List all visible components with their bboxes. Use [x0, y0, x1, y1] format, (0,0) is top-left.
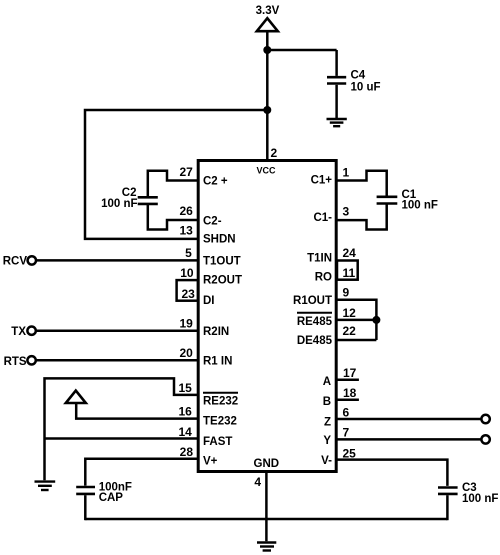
svg-text:VCC: VCC [256, 166, 276, 176]
svg-text:C4: C4 [351, 70, 366, 82]
svg-text:23: 23 [182, 287, 196, 301]
logic-high triangle at TE232 [66, 391, 86, 403]
svg-text:RTS: RTS [4, 356, 27, 368]
terminal Z circle [481, 415, 489, 423]
svg-text:C1+: C1+ [311, 174, 333, 186]
svg-text:GND: GND [254, 458, 280, 470]
pin 15 wire [45, 378, 199, 480]
capacitor C2 [138, 197, 158, 204]
svg-text:T1OUT: T1OUT [203, 256, 241, 268]
svg-text:22: 22 [343, 324, 357, 338]
svg-text:24: 24 [343, 246, 357, 260]
svg-text:15: 15 [178, 381, 192, 395]
pin 11 box [337, 261, 358, 280]
capacitor C1 [377, 197, 398, 204]
pin 6 wire Z [337, 418, 481, 421]
wire SHDN branch [85, 110, 267, 239]
IC U1 body [198, 161, 336, 472]
svg-text:13: 13 [179, 224, 193, 238]
svg-text:Z: Z [324, 417, 331, 429]
pin 19 wire [36, 329, 198, 332]
pin 27 wire [148, 171, 198, 196]
svg-text:RE232: RE232 [203, 395, 238, 407]
svg-text:1: 1 [343, 165, 350, 179]
svg-text:CAP: CAP [99, 492, 124, 504]
pin 1 wire [337, 171, 387, 196]
svg-text:100 nF: 100 nF [402, 200, 438, 212]
svg-text:14: 14 [178, 425, 192, 439]
pin 18 stub [337, 399, 359, 402]
capacitor C3 [438, 488, 458, 521]
svg-text:10: 10 [180, 266, 194, 280]
pin 20 wire [36, 359, 198, 362]
svg-text:9: 9 [343, 285, 350, 299]
pin 7 wire Y [337, 438, 481, 441]
svg-text:R2OUT: R2OUT [203, 275, 242, 287]
svg-text:3: 3 [343, 204, 350, 218]
svg-text:RO: RO [315, 272, 332, 284]
pin 9 wire [337, 300, 376, 340]
junction dot at 3.3V/C4 [263, 46, 271, 54]
svg-text:10 uF: 10 uF [351, 82, 381, 94]
pin 23 box [177, 280, 198, 301]
svg-text:A: A [323, 376, 331, 388]
capacitor CAP 100nF [76, 487, 95, 520]
pin 17 stub [337, 379, 359, 382]
pin name RE232 overline [203, 392, 238, 394]
pin 25 wire [337, 460, 447, 486]
junction dot at 3.3V/SHDN branch [263, 106, 271, 114]
svg-text:6: 6 [343, 405, 350, 419]
pin 28 wire [85, 459, 198, 486]
svg-text:27: 27 [179, 165, 193, 179]
wire 3.3V to pin 2 [266, 31, 269, 160]
svg-text:DI: DI [203, 295, 215, 307]
svg-text:16: 16 [178, 405, 192, 419]
power symbol 3.3V triangle [257, 18, 278, 31]
svg-text:T1IN: T1IN [307, 253, 332, 265]
svg-text:2: 2 [271, 146, 278, 160]
svg-text:R2IN: R2IN [203, 326, 229, 338]
pin 16 wire [76, 403, 198, 419]
svg-text:20: 20 [179, 346, 193, 360]
svg-text:4: 4 [254, 475, 261, 489]
svg-text:3.3V: 3.3V [256, 5, 280, 17]
svg-text:V+: V+ [203, 455, 218, 467]
wire to C4 [267, 49, 336, 52]
pin 4 wire [265, 471, 268, 541]
svg-text:C2 +: C2 + [203, 176, 228, 188]
pin 3 wire [337, 204, 387, 229]
ground bottom-left [35, 482, 56, 490]
pin 5 wire [36, 259, 198, 262]
junction dot RE485/DE485 [372, 316, 380, 324]
svg-text:TX: TX [11, 326, 26, 338]
svg-text:DE485: DE485 [297, 335, 333, 347]
pin name RE485 overline [297, 312, 332, 314]
svg-text:V-: V- [321, 455, 332, 467]
svg-text:SHDN: SHDN [203, 234, 236, 246]
pin 12 wire [337, 319, 376, 322]
ground under C4 [327, 119, 347, 126]
capacitor C4 [327, 50, 346, 118]
svg-text:28: 28 [180, 445, 194, 459]
terminal Y circle [481, 435, 489, 443]
svg-text:RE485: RE485 [297, 316, 333, 328]
svg-text:RCV: RCV [3, 256, 28, 268]
svg-text:17: 17 [343, 366, 357, 380]
ground bottom-center [257, 543, 276, 551]
pin 26 wire [148, 205, 198, 230]
svg-text:R1 IN: R1 IN [203, 355, 232, 367]
svg-text:25: 25 [343, 446, 357, 460]
svg-text:11: 11 [343, 266, 356, 280]
svg-text:C2-: C2- [203, 215, 222, 227]
svg-text:100 nF: 100 nF [462, 493, 498, 505]
pin 14 wire [45, 437, 199, 440]
svg-text:7: 7 [343, 425, 350, 439]
svg-text:5: 5 [185, 246, 192, 260]
svg-text:R1OUT: R1OUT [293, 295, 332, 307]
svg-text:TE232: TE232 [203, 416, 237, 428]
svg-text:26: 26 [179, 204, 193, 218]
svg-text:12: 12 [343, 306, 357, 320]
svg-text:C1-: C1- [313, 212, 332, 224]
svg-text:19: 19 [179, 317, 193, 331]
pin 22 wire [337, 339, 376, 342]
bottom rail wire [85, 518, 447, 521]
svg-text:18: 18 [343, 386, 357, 400]
svg-text:100 nF: 100 nF [101, 198, 137, 210]
svg-text:B: B [323, 396, 331, 408]
svg-text:FAST: FAST [203, 436, 232, 448]
svg-text:Y: Y [323, 435, 331, 447]
